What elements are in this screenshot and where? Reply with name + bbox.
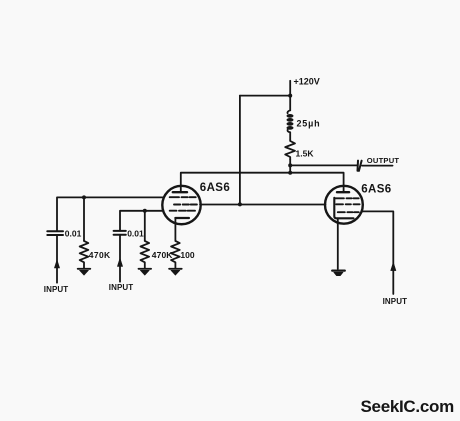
resistor 1.5K zigzag <box>285 140 295 160</box>
resistor R1 470K lead <box>83 197 85 241</box>
V1 cathode lead down <box>174 218 176 241</box>
wire: top branch from supply to screen bus <box>240 95 290 97</box>
wire: screen bus vertical <box>239 96 241 205</box>
svg-text:INPUT: INPUT <box>44 285 69 294</box>
V2 plate bar <box>337 191 349 193</box>
V2 grid row 3 (dashed) <box>338 211 359 213</box>
node: input1 / 470K junction <box>82 195 86 199</box>
ground: below V2 cathode <box>332 270 345 272</box>
svg-text:+120V: +120V <box>294 76 320 86</box>
wire: input 1 lower lead <box>56 235 58 283</box>
ground: below R2 <box>139 268 152 270</box>
svg-text:100: 100 <box>180 250 194 260</box>
capacitor C2 0.01 plates <box>114 230 126 232</box>
svg-text:6AS6: 6AS6 <box>200 182 230 194</box>
svg-text:SeekIC.com: SeekIC.com <box>361 397 455 416</box>
vacuum tube V1 6AS6 envelope <box>162 186 200 224</box>
resistor R2 470K zigzag <box>141 241 150 268</box>
wire: 1.5K bottom lead to plate bus <box>289 160 291 173</box>
wire: +120V supply vertical lead <box>289 81 291 111</box>
vacuum tube V2 6AS6 envelope <box>325 186 363 224</box>
wire: V2 grid 3 to input 3 <box>361 211 393 294</box>
svg-text:470K: 470K <box>152 250 173 260</box>
ground: below R1 <box>78 268 91 270</box>
svg-text:1.5K: 1.5K <box>296 149 315 159</box>
svg-text:470K: 470K <box>89 250 111 260</box>
svg-text:0.01: 0.01 <box>127 228 144 238</box>
wire: input 2 lower lead <box>119 235 121 282</box>
capacitor C1 0.01 plates <box>47 230 63 232</box>
node: junction at +120V line <box>288 94 292 98</box>
capacitor: output coupling cap <box>357 161 360 171</box>
wire: grid bus between tubes <box>200 204 326 206</box>
svg-text:25µh: 25µh <box>297 118 321 128</box>
wire: input 2 grid wire <box>120 211 163 231</box>
svg-text:6AS6: 6AS6 <box>361 184 391 196</box>
V2 grid row 1 (dashed) <box>335 197 359 199</box>
node: plate bus junction dot <box>288 171 292 175</box>
V1 grid row 1 (dashed) <box>170 196 196 198</box>
svg-text:INPUT: INPUT <box>383 297 408 306</box>
V1 cathode bar <box>175 217 189 219</box>
svg-text:INPUT: INPUT <box>109 283 134 292</box>
V1 grid row 2 (dashed) <box>174 204 197 206</box>
node: input2 / 470K junction <box>143 209 147 213</box>
V1 grid row 3 (dashed) <box>170 210 195 212</box>
arrow: input 1 <box>54 260 59 268</box>
wire: plate bus connecting both plates <box>181 173 344 193</box>
resistor R2 470K lead <box>144 211 146 241</box>
node: output junction dot <box>288 163 292 167</box>
wire: output line right segment <box>362 165 393 167</box>
svg-text:0.01: 0.01 <box>65 229 82 239</box>
node: screen bus junction on grid line <box>238 202 242 206</box>
V2 internal bracket grid-cathode tie <box>334 198 353 219</box>
arrow: input 3 <box>391 262 396 270</box>
resistor R3 100 zigzag <box>171 241 180 268</box>
wire: output line left segment <box>290 164 357 166</box>
wire: input 1 grid wire <box>57 197 164 231</box>
svg-text:OUTPUT: OUTPUT <box>367 156 400 165</box>
arrow: input 2 <box>117 258 122 266</box>
ground: below R3 <box>169 268 182 270</box>
V2 grid row 2 (dashed) <box>336 203 360 205</box>
resistor R1 470K zigzag <box>80 241 89 268</box>
inductor L1 25uh coil <box>288 110 291 113</box>
V1 plate bar <box>173 191 187 193</box>
V2 cathode lead down <box>337 218 339 269</box>
